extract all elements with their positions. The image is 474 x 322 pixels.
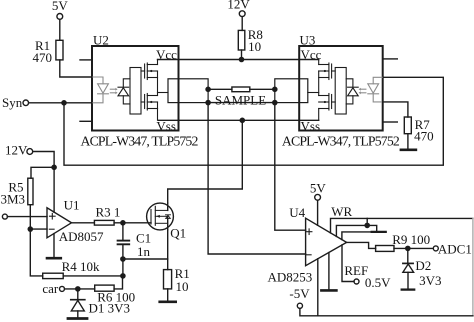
ground R7 <box>401 149 416 152</box>
capacitor C1 1n <box>118 223 130 276</box>
wire right edge down (faint) <box>472 218 474 315</box>
output pins block U2 <box>168 79 208 103</box>
resistor R7 470 <box>404 117 411 134</box>
svg-text:AD8253: AD8253 <box>268 270 313 285</box>
node -5V terminal <box>297 303 302 308</box>
wire WR line <box>331 218 473 233</box>
optocoupler U2 box <box>92 46 179 131</box>
junction U2 output lower <box>206 101 210 105</box>
svg-text:Vss: Vss <box>301 119 321 134</box>
junction U2 output upper <box>206 87 210 91</box>
junction Syn branch <box>62 101 66 105</box>
wire R5 down to R4 <box>30 205 42 276</box>
node 12V terminal top <box>239 11 245 17</box>
svg-text:U1: U1 <box>64 198 80 213</box>
node ADC1 terminal <box>433 246 438 251</box>
ground U4 <box>321 253 336 291</box>
wire 5V to R1 <box>59 19 61 40</box>
svg-text:U4: U4 <box>289 205 305 220</box>
svg-text:470: 470 <box>414 129 434 144</box>
wire sample shunt left <box>208 88 232 90</box>
wire R1(10) to ground <box>167 289 169 301</box>
wire -5V rail along bottom <box>300 308 473 315</box>
wire C1 node to Q1 source <box>123 258 168 260</box>
wire Vss rail U2-U3 <box>159 119 319 121</box>
op-amp U4 AD8253 <box>306 218 347 266</box>
ground R1(10) <box>160 300 176 303</box>
svg-text:12V: 12V <box>5 142 28 157</box>
resistor SAMPLE shunt <box>232 87 250 92</box>
junction car/D1 <box>76 287 80 291</box>
junction inverting input node <box>28 227 32 231</box>
resistor R4 10k <box>43 273 64 278</box>
zener D1 3V3 <box>71 289 85 317</box>
wire 12V feed <box>33 152 54 168</box>
svg-text:WR: WR <box>331 204 352 219</box>
photodiode inside U2 <box>118 79 130 104</box>
wire R4 to feedback node <box>63 275 123 277</box>
pin stub U3 upper-right NC <box>383 58 398 60</box>
driver block U2 <box>130 68 141 115</box>
svg-text:1n: 1n <box>137 244 151 259</box>
input pins block U3 <box>275 79 308 103</box>
junction D2 tap <box>406 246 410 250</box>
resistor R5 3M3 <box>28 178 33 205</box>
junction gate/C1 node <box>121 221 125 225</box>
node 12V terminal left <box>27 149 33 155</box>
node car terminal <box>60 286 65 291</box>
resistor R1 10 (source resistor) <box>164 270 172 289</box>
svg-text:5V: 5V <box>52 0 69 13</box>
ground D2 <box>402 288 415 290</box>
zener D2 3V3 <box>403 248 414 288</box>
svg-text:D1 3V3: D1 3V3 <box>89 301 131 316</box>
svg-text:10: 10 <box>176 279 189 294</box>
op-amp U1 AD8057 <box>47 208 72 238</box>
wire 5V to U4 supply <box>317 200 319 225</box>
resistor R6 100 <box>95 285 114 291</box>
svg-text:470: 470 <box>33 50 53 65</box>
wire REF pin <box>342 245 354 282</box>
svg-text:SAMPLE: SAMPLE <box>215 92 266 107</box>
wire Vcc rail U2-U3 <box>158 59 319 61</box>
svg-text:U3: U3 <box>300 33 316 48</box>
junction C1 bottom node <box>121 257 125 261</box>
wire junction to WR <box>366 218 368 225</box>
LED emitter inside U3 (gray) <box>359 77 383 102</box>
wire U2 lower output to U4 inverting input <box>208 103 306 254</box>
svg-text:AD8057: AD8057 <box>59 229 104 244</box>
node input terminal left <box>2 214 7 219</box>
svg-text:5V: 5V <box>310 181 327 196</box>
wire U3 lower input to U4 non-inverting input <box>275 103 306 231</box>
ground D1 <box>68 317 87 320</box>
junction U3 input lower <box>273 101 277 105</box>
node REF 0.5V terminal <box>354 279 359 284</box>
wire Q1 drain up to Vss rail <box>168 120 243 203</box>
driver block U3 <box>335 68 346 115</box>
junction WR/A0 <box>365 223 369 227</box>
node Syn terminal <box>23 100 29 106</box>
wire R8 to Vcc rail <box>241 50 243 60</box>
svg-text:U2: U2 <box>93 33 109 48</box>
wire U3 LED cathode to R7 <box>383 102 408 117</box>
wire R9 to ADC1 <box>394 247 433 249</box>
node 5V terminal top-left <box>57 14 63 20</box>
svg-text:Vss: Vss <box>156 119 176 134</box>
wire to U1 inverting input <box>30 228 47 230</box>
svg-text:3V3: 3V3 <box>419 273 441 288</box>
LED emitter inside U2 (gray) <box>93 77 118 103</box>
wire 12V to R5 <box>31 167 54 178</box>
wire lower sense line <box>208 102 275 104</box>
svg-text:Vcc: Vcc <box>156 47 177 62</box>
wire Q1 source down <box>167 230 169 270</box>
wire car to R6 <box>65 288 95 290</box>
svg-text:0.5V: 0.5V <box>365 275 391 290</box>
junction feedback node <box>121 274 125 278</box>
svg-text:12V: 12V <box>227 0 250 12</box>
ground U1 <box>47 234 61 259</box>
junction Q1 drain on Vss rail <box>240 118 244 122</box>
wire U4 negative supply pin <box>317 259 319 316</box>
wire Syn loop to U3 right side <box>64 77 443 165</box>
svg-text:Vcc: Vcc <box>301 47 322 62</box>
resistor R1 470 (top-left) <box>56 40 63 60</box>
transistor Q1 (MOSFET in circle) <box>147 203 174 230</box>
wire 12V to U1 supply pin <box>53 167 55 212</box>
wire A1 line <box>342 232 372 240</box>
wire R6 to feedback node <box>114 276 122 289</box>
pin stub U2 lower-left NC <box>80 120 92 122</box>
wire R1 to U2 LED anode <box>60 60 92 77</box>
pin stub U3 lower-right NC <box>383 121 398 123</box>
wire U4 output to R9 <box>347 242 376 248</box>
svg-text:ACPL-W347, TLP5752: ACPL-W347, TLP5752 <box>80 133 198 148</box>
junction U3 input upper <box>273 87 277 91</box>
resistor R8 10 <box>238 30 245 50</box>
junction R8/Vcc rail <box>239 57 243 61</box>
wire Syn to U2 LED cathode <box>29 102 92 104</box>
svg-text:10: 10 <box>248 39 261 54</box>
svg-text:R4 10k: R4 10k <box>62 259 100 274</box>
photodiode inside U3 <box>346 79 358 104</box>
svg-text:3M3: 3M3 <box>1 192 26 207</box>
input MOSFET totem pole U3 <box>308 60 335 121</box>
resistor R9 100 <box>376 246 394 252</box>
svg-text:-5V: -5V <box>289 286 310 301</box>
wire A0 line <box>336 225 376 236</box>
svg-text:Q1: Q1 <box>170 226 186 241</box>
wire input to U1 + <box>7 216 47 218</box>
wire R3 to Q1 gate <box>114 222 151 224</box>
svg-text:car: car <box>42 281 59 296</box>
ground bar WR pins <box>372 231 386 233</box>
junction 12V node <box>52 165 56 169</box>
pin stub U2 upper-left NC <box>80 59 92 61</box>
wire 12V to R8 <box>241 17 243 31</box>
svg-text:ACPL-W347, TLP5752: ACPL-W347, TLP5752 <box>282 133 400 148</box>
wire sample shunt right <box>250 88 275 90</box>
svg-text:ADC1: ADC1 <box>438 242 472 257</box>
svg-text:D2: D2 <box>415 258 431 273</box>
svg-text:Syn: Syn <box>2 95 23 110</box>
output MOSFET totem pole U2 <box>141 60 168 121</box>
svg-text:R3 1: R3 1 <box>96 204 121 219</box>
resistor R3 1 <box>94 220 114 225</box>
node 5V terminal for U4 <box>315 194 321 200</box>
optocoupler U3 box <box>299 46 383 131</box>
wire U1 output <box>72 222 95 224</box>
svg-text:R9 100: R9 100 <box>392 232 430 247</box>
wire R7 to ground <box>407 134 409 149</box>
